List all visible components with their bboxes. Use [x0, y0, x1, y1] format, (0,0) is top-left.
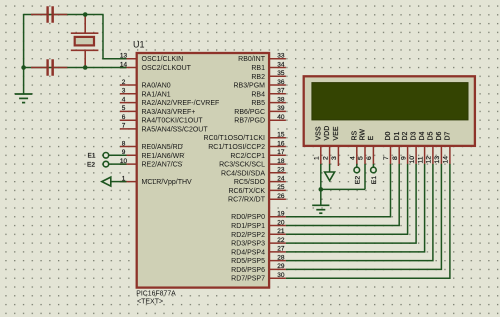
svg-text:VDD: VDD [324, 126, 331, 141]
svg-text:D2: D2 [402, 131, 409, 140]
svg-text:39: 39 [277, 105, 285, 112]
svg-text:25: 25 [277, 184, 285, 191]
wire D7 to RD7 [286, 164, 450, 278]
svg-text:4: 4 [350, 156, 357, 160]
svg-text:RD7/PSP7: RD7/PSP7 [231, 276, 265, 283]
U1 pin 6 stub (left, RA4/T0CKI/C1OUT) [120, 119, 137, 121]
LCD pin 3 (VEE) stub [337, 147, 339, 166]
svg-text:38: 38 [277, 96, 285, 103]
LCD pin 1 (VSS) stub [320, 147, 322, 165]
svg-text:1: 1 [314, 156, 321, 160]
U1 pin 34 stub (right, RB1) [270, 67, 286, 69]
svg-text:E1: E1 [371, 176, 378, 185]
wire right rail to OSC1 [102, 15, 104, 59]
U1 pin 5 stub (left, RA3/AN3/VREF+) [120, 110, 137, 112]
wire D4 to RD4 [286, 164, 425, 252]
svg-text:RB3/PGM: RB3/PGM [233, 83, 265, 90]
terminal E1 (to U1 pin 9) [109, 154, 127, 156]
wire RW to ground [364, 164, 366, 190]
ground (LCD) [312, 204, 329, 206]
U1 pin 20 stub (right, RD1/PSP1) [270, 225, 286, 227]
svg-text:21: 21 [277, 228, 285, 235]
U1 pin 30 stub (right, RD7/PSP7) [270, 277, 286, 279]
svg-text:RA2/AN2/VREF-/CVREF: RA2/AN2/VREF-/CVREF [142, 100, 220, 107]
wire bottom rail from C2 to OSC2 [24, 67, 127, 69]
svg-text:RB1: RB1 [251, 65, 265, 72]
U1 pin 3 stub (left, RA1/AN1) [120, 93, 137, 95]
U1 pin 9 stub (left, RE1/AN6/WR) [120, 154, 137, 156]
svg-text:37: 37 [277, 88, 285, 95]
svg-text:E1: E1 [88, 153, 96, 160]
svg-text:22: 22 [277, 237, 285, 244]
svg-text:RE2/AN7/CS: RE2/AN7/CS [142, 162, 183, 169]
svg-text:D1: D1 [394, 131, 401, 140]
wire OSC1 overlay [120, 58, 127, 60]
U1 pin 18 stub (right, RC3/SCK/SCL) [270, 163, 286, 165]
input terminal MCLR (to U1 pin 1) [111, 181, 127, 183]
wire D3 to RD3 [286, 164, 416, 243]
svg-text:RC5/SDO: RC5/SDO [234, 179, 266, 186]
LCD pin 6 (E) stub [372, 147, 374, 165]
U1 pin 40 stub (right, RB7/PGD) [270, 119, 286, 121]
U1 pin 15 stub (right, RC0/T1OSO/T1CKI) [270, 137, 286, 139]
svg-text:28: 28 [277, 254, 285, 261]
U1 pin 21 stub (right, RD2/PSP2) [270, 233, 286, 235]
svg-text:13: 13 [434, 156, 441, 164]
svg-text:MCLR/Vpp/THV: MCLR/Vpp/THV [142, 179, 193, 186]
svg-text:RB4: RB4 [251, 91, 265, 98]
LCD pin 7 (D0) stub [390, 147, 392, 165]
svg-text:RA4/T0CKI/C1OUT: RA4/T0CKI/C1OUT [142, 118, 204, 125]
svg-text:PIC16F877A: PIC16F877A [136, 291, 176, 298]
svg-text:11: 11 [417, 156, 424, 163]
svg-text:RC0/T1OSO/T1CKI: RC0/T1OSO/T1CKI [204, 135, 266, 142]
U1 pin 4 stub (left, RA2/AN2/VREF-/CVREF) [120, 102, 137, 104]
svg-text:RB6/PGC: RB6/PGC [234, 109, 265, 116]
svg-text:10: 10 [409, 156, 416, 164]
LCD pin 8 (D1) stub [398, 147, 400, 165]
svg-text:RC4/SDI/SDA: RC4/SDI/SDA [221, 170, 265, 177]
junction crystal bottom node [83, 65, 88, 70]
LCD pin 9 (D2) stub [407, 147, 409, 165]
svg-text:RB0/INT: RB0/INT [238, 56, 266, 63]
power terminal +5V on VDD [329, 164, 331, 172]
svg-text:24: 24 [277, 175, 285, 182]
junction VSS/RW node [319, 187, 324, 192]
svg-text:40: 40 [277, 114, 285, 121]
svg-text:RE1/AN6/WR: RE1/AN6/WR [142, 153, 185, 160]
svg-text:20: 20 [277, 219, 285, 226]
U1 pin 22 stub (right, RD3/PSP3) [270, 242, 286, 244]
svg-text:6: 6 [366, 156, 373, 160]
svg-text:2: 2 [122, 79, 126, 86]
wire left rail down to ground [23, 14, 25, 94]
svg-text:VEE: VEE [333, 126, 340, 140]
svg-text:RB2: RB2 [251, 74, 265, 81]
svg-text:RC6/TX/CK: RC6/TX/CK [228, 188, 265, 195]
LCD pin 5 (RW) stub [364, 147, 366, 165]
U1 pin 39 stub (right, RB6/PGC) [270, 110, 286, 112]
svg-text:2: 2 [322, 156, 329, 160]
svg-text:8: 8 [122, 140, 126, 147]
capacitor C1 [31, 14, 46, 16]
svg-text:D3: D3 [411, 131, 418, 140]
wire top rail from C1 to crystal node [24, 14, 104, 16]
svg-text:6: 6 [122, 114, 126, 121]
svg-text:RC2/CCP1: RC2/CCP1 [230, 153, 265, 160]
terminal E2 (LCD RS) [356, 164, 358, 167]
svg-text:RD5/PSP5: RD5/PSP5 [231, 258, 265, 265]
U1 pin 24 stub (right, RC5/SDO) [270, 181, 286, 183]
svg-text:RD4/PSP4: RD4/PSP4 [231, 249, 265, 256]
LCD pin 12 (D5) stub [432, 147, 434, 165]
U1 pin 1 stub (left, MCLR/Vpp/THV) [120, 181, 137, 183]
svg-text:RC3/SCK/SCL: RC3/SCK/SCL [219, 162, 265, 169]
junction left rail / C2 [21, 65, 26, 70]
wire VSS to ground [320, 164, 322, 205]
svg-text:RC7/RX/DT: RC7/RX/DT [228, 197, 266, 204]
LCD screen [312, 83, 468, 120]
svg-text:E2: E2 [354, 176, 361, 185]
svg-text:5: 5 [122, 105, 126, 112]
svg-text:5: 5 [358, 156, 365, 160]
U1 pin 35 stub (right, RB2) [270, 75, 286, 77]
wire D5 to RD5 [286, 164, 433, 261]
svg-text:RD0/PSP0: RD0/PSP0 [231, 214, 265, 221]
svg-text:RD3/PSP3: RD3/PSP3 [231, 241, 265, 248]
svg-text:RB7/PGD: RB7/PGD [234, 118, 265, 125]
svg-text:3: 3 [331, 156, 338, 160]
svg-text:RD2/PSP2: RD2/PSP2 [231, 232, 265, 239]
svg-text:14: 14 [443, 156, 450, 164]
U1 pin 23 stub (right, RC4/SDI/SDA) [270, 172, 286, 174]
U1 pin 29 stub (right, RD6/PSP6) [270, 268, 286, 270]
svg-text:OSC1/CLKIN: OSC1/CLKIN [142, 56, 184, 63]
ground (oscillator) [15, 93, 32, 95]
U1 pin 38 stub (right, RB5) [270, 102, 286, 104]
svg-text:12: 12 [426, 156, 433, 164]
svg-text:RA1/AN1: RA1/AN1 [142, 91, 171, 98]
U1 pin 7 stub (left, RA5/AN4/SS/C2OUT) [120, 128, 137, 130]
svg-text:17: 17 [277, 149, 285, 156]
svg-text:30: 30 [277, 272, 285, 279]
svg-text:RD6/PSP6: RD6/PSP6 [231, 267, 265, 274]
U1 pin 36 stub (right, RB3/PGM) [270, 84, 286, 86]
LCD pin 2 (VDD) stub [329, 147, 331, 165]
svg-text:RB5: RB5 [251, 100, 265, 107]
svg-text:3: 3 [122, 88, 126, 95]
U1 pin 28 stub (right, RD5/PSP5) [270, 260, 286, 262]
IC U1 PIC16F877A body [137, 53, 269, 288]
svg-text:34: 34 [277, 61, 285, 68]
svg-text:RA3/AN3/VREF+: RA3/AN3/VREF+ [142, 109, 196, 116]
U1 pin 19 stub (right, RD0/PSP0) [270, 216, 286, 218]
svg-text:VSS: VSS [315, 126, 322, 140]
svg-text:35: 35 [277, 70, 285, 77]
U1 pin 2 stub (left, RA0/AN0) [120, 84, 137, 86]
junction crystal top node [83, 12, 88, 17]
LCD pin 4 (RS) stub [356, 147, 358, 165]
svg-text:OSC2/CLKOUT: OSC2/CLKOUT [142, 65, 192, 72]
U1 pin 17 stub (right, RC2/CCP1) [270, 154, 286, 156]
U1 pin 16 stub (right, RC1/T1OSI/CCP2) [270, 146, 286, 148]
U1 pin 13 stub (left, OSC1/CLKIN) [120, 58, 137, 60]
U1 pin 10 stub (left, RE2/AN7/CS) [120, 163, 137, 165]
terminal E2 (to U1 pin 10) [109, 163, 127, 165]
terminal E1 (LCD E) [372, 164, 374, 167]
wire D6 to RD6 [286, 164, 442, 270]
svg-text:RE0/AN5/RD: RE0/AN5/RD [142, 144, 183, 151]
svg-text:D0: D0 [385, 131, 392, 140]
svg-text:23: 23 [277, 167, 285, 174]
svg-text:RA0/AN0: RA0/AN0 [142, 83, 171, 90]
svg-text:RA5/AN4/SS/C2OUT: RA5/AN4/SS/C2OUT [142, 126, 209, 133]
svg-text:RW: RW [360, 129, 367, 141]
svg-text:U1: U1 [133, 39, 145, 49]
svg-text:7: 7 [122, 123, 126, 130]
svg-text:4: 4 [122, 96, 126, 103]
U1 pin 37 stub (right, RB4) [270, 93, 286, 95]
svg-text:RD1/PSP1: RD1/PSP1 [231, 223, 265, 230]
svg-text:D5: D5 [428, 131, 435, 140]
wire D1 to RD1 [286, 164, 399, 226]
wire OSC2 overlay [120, 67, 127, 69]
svg-text:E2: E2 [87, 161, 95, 168]
svg-text:RC1/T1OSI/CCP2: RC1/T1OSI/CCP2 [208, 144, 265, 151]
U1 pin 27 stub (right, RD4/PSP4) [270, 251, 286, 253]
svg-text:<TEXT>: <TEXT> [137, 299, 163, 306]
U1 pin 33 stub (right, RB0/INT) [270, 58, 286, 60]
svg-text:D7: D7 [445, 131, 452, 140]
svg-text:36: 36 [277, 79, 285, 86]
svg-text:26: 26 [277, 193, 285, 200]
LCD pin 14 (D7) stub [449, 147, 451, 165]
LCD pin 13 (D6) stub [440, 147, 442, 165]
svg-text:33: 33 [277, 53, 285, 60]
svg-text:7: 7 [383, 156, 390, 160]
svg-text:RS: RS [351, 130, 358, 140]
LCD module body [304, 76, 475, 146]
wire D0 to RD0 [286, 164, 391, 217]
U1 pin 25 stub (right, RC6/TX/CK) [270, 189, 286, 191]
LCD pin 10 (D3) stub [415, 147, 417, 165]
svg-text:E: E [368, 136, 375, 141]
U1 pin 14 stub (left, OSC2/CLKOUT) [120, 67, 137, 69]
svg-text:D4: D4 [419, 131, 426, 140]
svg-text:8: 8 [392, 156, 399, 160]
U1 pin 26 stub (right, RC7/RX/DT) [270, 198, 286, 200]
svg-text:9: 9 [400, 156, 407, 160]
wire D2 to RD2 [286, 164, 408, 234]
svg-text:18: 18 [277, 158, 285, 165]
U1 pin 8 stub (left, RE0/AN5/RD) [120, 146, 137, 148]
svg-text:15: 15 [277, 132, 285, 139]
LCD pin 11 (D4) stub [424, 147, 426, 165]
svg-text:19: 19 [277, 211, 285, 218]
svg-text:16: 16 [277, 140, 285, 147]
crystal X1 [84, 15, 86, 34]
svg-text:29: 29 [277, 263, 285, 270]
svg-text:D6: D6 [436, 131, 443, 140]
svg-text:27: 27 [277, 246, 285, 253]
capacitor C2 [31, 67, 46, 69]
